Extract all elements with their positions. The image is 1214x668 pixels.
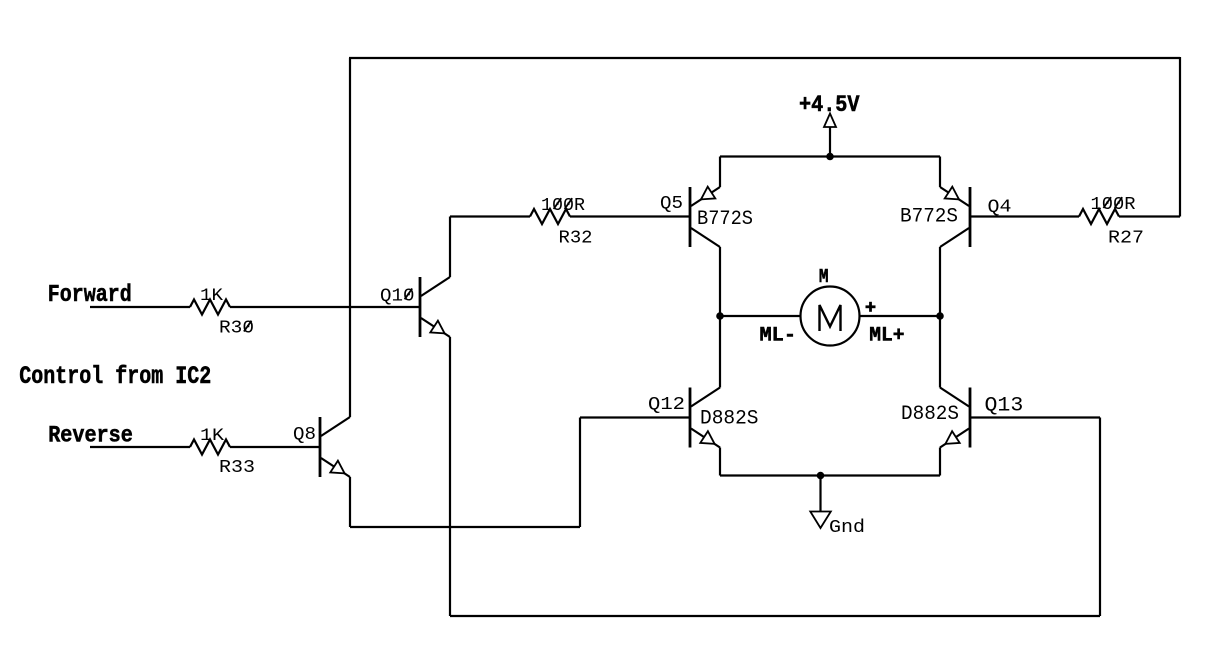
svg-text:Q13: Q13 — [985, 394, 1024, 417]
net label Control from IC2 — [19, 363, 211, 391]
svg-text:+4.5V: +4.5V — [799, 92, 860, 118]
wire — [90, 446, 190, 448]
wire — [719, 247, 721, 388]
wire — [570, 215, 690, 217]
wire — [720, 474, 940, 476]
wire — [230, 446, 320, 448]
svg-text:D882S: D882S — [700, 407, 759, 430]
wire — [350, 526, 580, 528]
label R27 — [1091, 193, 1145, 249]
net label Forward — [48, 282, 132, 309]
svg-text:100R: 100R — [541, 194, 585, 216]
node motor right junction — [936, 312, 944, 320]
svg-text:R27: R27 — [1108, 227, 1144, 249]
wire — [720, 315, 801, 317]
svg-text:R33: R33 — [219, 456, 255, 478]
svg-text:Q12: Q12 — [648, 393, 685, 415]
wire — [1099, 418, 1101, 617]
label R32 — [541, 194, 593, 249]
wire — [720, 155, 940, 157]
svg-text:Forward: Forward — [48, 282, 132, 309]
svg-text:ML-: ML- — [760, 325, 797, 348]
transistor Q13 — [901, 388, 1023, 448]
svg-text:R30: R30 — [219, 317, 254, 339]
wire — [939, 448, 941, 476]
wire — [449, 217, 451, 278]
transistor Q5 — [660, 187, 753, 247]
wire — [580, 416, 690, 418]
net label Reverse — [48, 423, 133, 449]
svg-text:Q5: Q5 — [660, 192, 683, 214]
transistor Q4 — [900, 187, 1012, 247]
wire — [349, 58, 351, 417]
resistor R33 — [190, 440, 230, 455]
svg-text:100R: 100R — [1091, 193, 1136, 215]
wire — [450, 215, 530, 217]
transistor Q12 — [648, 388, 759, 448]
resistor R27 — [1079, 209, 1119, 224]
transistor Q8 — [293, 417, 350, 477]
svg-text:1K: 1K — [200, 427, 225, 446]
svg-text:Q8: Q8 — [293, 423, 316, 445]
transistor Q10 — [380, 277, 450, 337]
wire — [450, 615, 1100, 617]
wire — [349, 477, 351, 527]
svg-text:B772S: B772S — [900, 205, 958, 228]
power +4.5V — [799, 92, 860, 157]
wire — [970, 416, 1100, 418]
svg-text:M: M — [819, 266, 829, 288]
wire — [579, 418, 581, 528]
svg-text:Gnd: Gnd — [829, 518, 865, 538]
wire — [90, 306, 190, 308]
label R33 — [200, 427, 255, 478]
node gnd junction — [817, 472, 825, 480]
wire — [349, 57, 1180, 59]
wire — [860, 315, 941, 317]
wire — [719, 448, 721, 476]
wire — [449, 337, 451, 616]
resistor R30 — [190, 300, 230, 315]
label R30 — [200, 287, 254, 339]
wire — [939, 247, 941, 388]
svg-text:1K: 1K — [200, 287, 224, 306]
wire — [970, 215, 1079, 217]
wire — [1119, 215, 1180, 217]
wire — [719, 157, 721, 188]
label ML- — [760, 325, 797, 348]
resistor R32 — [530, 209, 570, 224]
ground — [810, 476, 865, 539]
node +4.5V junction — [826, 153, 834, 161]
svg-text:Q10: Q10 — [380, 284, 415, 306]
svg-text:R32: R32 — [559, 227, 593, 249]
svg-text:Control from IC2: Control from IC2 — [19, 363, 211, 391]
label ML+ — [869, 325, 904, 348]
svg-text:Reverse: Reverse — [48, 423, 133, 449]
svg-text:Q4: Q4 — [988, 196, 1012, 218]
wire — [230, 306, 420, 308]
node motor left junction — [716, 312, 724, 320]
svg-text:B772S: B772S — [697, 208, 753, 231]
wire — [1179, 57, 1181, 217]
motor M1 — [801, 266, 876, 346]
wire — [939, 157, 941, 188]
svg-text:D882S: D882S — [901, 403, 959, 426]
svg-text:ML+: ML+ — [869, 325, 904, 348]
